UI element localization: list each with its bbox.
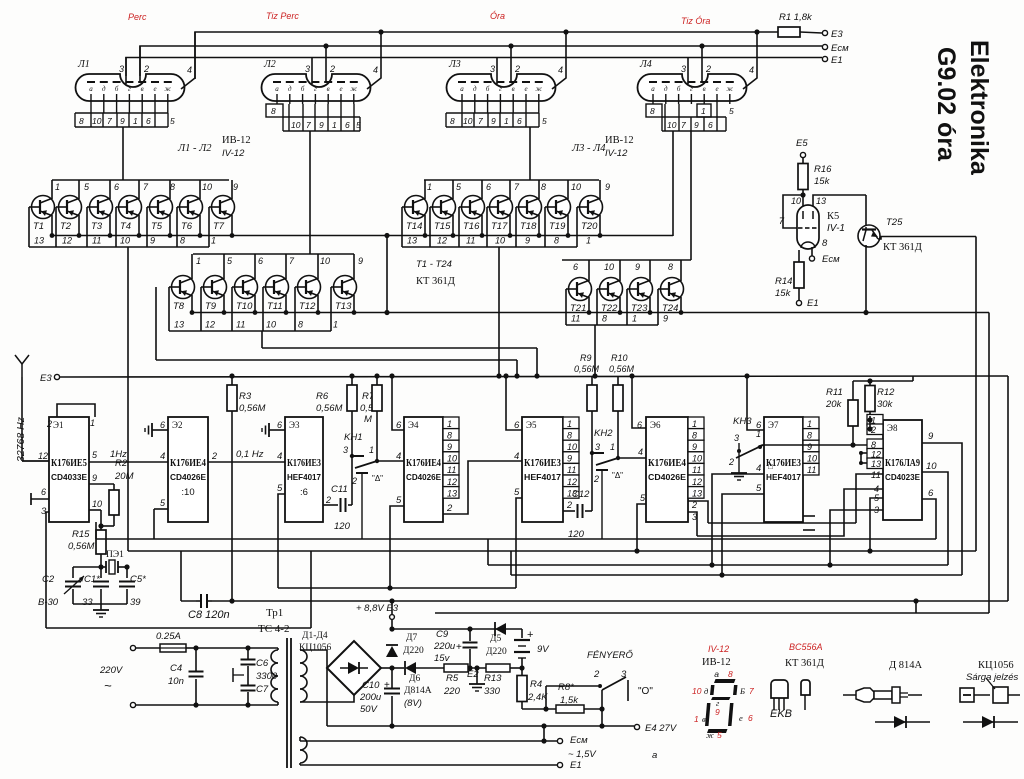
svg-text:E3: E3 — [40, 373, 52, 384]
wire T25 collector — [865, 245, 867, 313]
svg-text:8: 8 — [822, 238, 828, 249]
svg-text:1: 1 — [427, 182, 432, 192]
wire h7 — [511, 574, 962, 576]
svg-text:T25: T25 — [886, 217, 903, 228]
tube L4 pin1 box — [697, 104, 711, 117]
svg-text:г: г — [499, 85, 502, 93]
svg-text:10: 10 — [266, 320, 276, 330]
svg-text:ж: ж — [351, 85, 358, 93]
transistor T8 — [191, 254, 193, 279]
svg-text:R10: R10 — [611, 353, 628, 363]
tube L2 pin8 box — [266, 104, 283, 117]
svg-text:3: 3 — [595, 442, 600, 452]
svg-text:Есм: Есм — [831, 43, 849, 54]
svg-text:13: 13 — [174, 320, 184, 330]
wire E3 right edge down — [1007, 376, 1009, 601]
svg-text:2: 2 — [514, 64, 520, 74]
svg-text:5: 5 — [277, 483, 283, 494]
E6ic output pin boxes — [688, 417, 704, 429]
svg-text:Л1 - Л2: Л1 - Л2 — [177, 143, 212, 154]
diode D7 symbol — [386, 646, 398, 657]
svg-text:R2: R2 — [115, 458, 128, 469]
svg-text:6: 6 — [573, 262, 578, 272]
svg-text:8: 8 — [692, 430, 697, 440]
transistor package front view — [771, 680, 788, 698]
transistor T10 — [254, 254, 256, 279]
svg-text:CD4026E: CD4026E — [648, 472, 686, 482]
wire h4 — [96, 538, 936, 540]
wire T1 row base riser — [127, 247, 129, 551]
svg-text:6: 6 — [345, 120, 350, 130]
svg-text:E1: E1 — [807, 298, 819, 309]
svg-text:д: д — [664, 85, 668, 93]
svg-text:1: 1 — [211, 236, 216, 246]
svg-text:(8V): (8V) — [404, 698, 422, 709]
transistor T13 — [353, 254, 355, 279]
svg-text:8: 8 — [567, 430, 572, 440]
svg-text:IV-12: IV-12 — [605, 148, 628, 159]
transformer Tp1 primary — [271, 650, 278, 663]
svg-text:9: 9 — [715, 707, 720, 717]
svg-text:0,1 Hz: 0,1 Hz — [236, 449, 264, 460]
wire bridge out — [381, 667, 392, 669]
svg-text:5: 5 — [356, 120, 361, 130]
transistor row T21-T24 top rail — [562, 259, 691, 261]
svg-text:T18: T18 — [520, 221, 537, 232]
svg-text:Tiz Perc: Tiz Perc — [266, 11, 299, 21]
svg-text:1: 1 — [610, 442, 615, 452]
svg-text:2: 2 — [593, 474, 599, 484]
svg-text:B-30: B-30 — [38, 597, 59, 608]
diode D814A package — [843, 694, 856, 696]
E7ic output pin boxes — [803, 417, 819, 429]
wire to transformer — [248, 647, 278, 649]
svg-text:д: д — [102, 85, 106, 93]
svg-text:1: 1 — [632, 314, 637, 324]
svg-text:4: 4 — [749, 65, 754, 75]
wire T21 riser down — [594, 325, 596, 376]
svg-text:9: 9 — [663, 314, 668, 324]
svg-text:CD4033E: CD4033E — [51, 472, 87, 482]
diode KC1056 package — [960, 688, 974, 702]
svg-text:11: 11 — [871, 470, 881, 481]
svg-text:2: 2 — [325, 495, 331, 505]
svg-text:а: а — [89, 85, 93, 93]
svg-text:IV-12: IV-12 — [708, 644, 729, 654]
svg-text:КТ 361Д: КТ 361Д — [416, 276, 455, 287]
svg-text:a: a — [714, 669, 719, 679]
svg-text:ж: ж — [536, 85, 543, 93]
wire L2 comb down — [309, 131, 311, 254]
wire pins 12 13 join — [861, 452, 867, 454]
wire E3 mid bus — [60, 376, 1008, 377]
svg-text:220u: 220u — [433, 641, 456, 652]
svg-text:BC556A: BC556A — [789, 642, 823, 652]
tube Л4 IV-12 — [638, 74, 747, 101]
svg-text:T13: T13 — [335, 301, 352, 312]
ic Э3 — [285, 417, 323, 522]
svg-text:7: 7 — [681, 120, 686, 130]
svg-text:2: 2 — [705, 64, 711, 74]
wire K5 pin10 — [802, 195, 804, 206]
svg-text:50V: 50V — [360, 704, 379, 715]
svg-text:E1: E1 — [570, 760, 582, 771]
svg-text:1: 1 — [333, 320, 338, 330]
svg-text:К176ИЕ4: К176ИЕ4 — [170, 458, 207, 469]
svg-text:T16: T16 — [463, 221, 480, 232]
svg-text:C2: C2 — [42, 574, 55, 585]
svg-text:в: в — [512, 85, 515, 93]
svg-text:R11: R11 — [826, 387, 843, 398]
svg-text:+: + — [384, 680, 390, 691]
svg-text:T20: T20 — [581, 221, 598, 232]
E4ic output pin boxes — [443, 417, 459, 429]
wire h10 — [435, 612, 989, 614]
svg-text:4: 4 — [638, 447, 643, 457]
svg-text:1: 1 — [55, 182, 60, 192]
Л4 segment electrodes — [649, 81, 657, 83]
svg-text:R13: R13 — [484, 673, 502, 684]
svg-text:IV-12: IV-12 — [222, 148, 245, 159]
transistor T9 — [223, 254, 225, 279]
svg-text:C1*: C1* — [84, 574, 100, 585]
wire riser bus236 to bus313 — [386, 236, 388, 313]
transistor T25 — [865, 195, 867, 227]
svg-text:ИВ-12: ИВ-12 — [702, 657, 731, 668]
svg-text:К176ИЕ5: К176ИЕ5 — [51, 458, 87, 469]
svg-text:R3: R3 — [239, 391, 252, 402]
wire Л1 pin2 — [139, 46, 141, 82]
svg-text:8: 8 — [298, 320, 303, 330]
svg-text:КТ 361Д: КТ 361Д — [883, 242, 922, 253]
svg-text:11: 11 — [571, 314, 580, 324]
transistor T14 — [424, 180, 426, 199]
tube Л1 IV-12 — [76, 74, 185, 101]
svg-text:E3: E3 — [831, 29, 843, 40]
svg-text:г: г — [690, 85, 693, 93]
svg-text:1: 1 — [694, 714, 699, 724]
wire h11 — [46, 627, 311, 629]
svg-text:10: 10 — [807, 454, 817, 464]
svg-text:T5: T5 — [151, 221, 163, 232]
svg-text:T9: T9 — [205, 301, 217, 312]
wire bus E1 top — [126, 58, 822, 77]
svg-text:9: 9 — [567, 454, 572, 464]
wire Л4 pin4 grid — [743, 32, 757, 89]
wire Л4 pin3 — [687, 57, 689, 84]
ic Э6 — [646, 417, 688, 522]
svg-text:12: 12 — [437, 236, 447, 246]
fuse — [136, 647, 160, 649]
wire Л1 pin4 grid — [181, 32, 195, 89]
svg-text:KH1: KH1 — [344, 432, 362, 443]
svg-text:Л1: Л1 — [77, 59, 90, 70]
svg-text:T7: T7 — [213, 221, 225, 232]
wire T8 row bottom riser m1 — [261, 331, 263, 348]
svg-text:Elektronika: Elektronika — [965, 40, 993, 176]
svg-text:+: + — [456, 642, 462, 653]
svg-text:9: 9 — [150, 236, 155, 246]
svg-text:13: 13 — [447, 488, 457, 498]
svg-text:8: 8 — [180, 236, 185, 246]
svg-text:Тр1: Тр1 — [266, 607, 283, 619]
wire L1 grid-comb down — [122, 127, 124, 180]
svg-text:ТС 4-2: ТС 4-2 — [258, 623, 289, 635]
svg-text:0,56M: 0,56M — [316, 403, 342, 414]
svg-text:2: 2 — [593, 669, 600, 680]
svg-text:4: 4 — [187, 65, 192, 75]
svg-text:9: 9 — [605, 182, 610, 192]
wire bus313 right edge down — [988, 313, 990, 614]
svg-text:~ 1,5V: ~ 1,5V — [568, 749, 597, 760]
wire Л4 pin2 — [701, 46, 703, 82]
svg-text:а: а — [460, 85, 464, 93]
svg-text:5: 5 — [729, 106, 734, 116]
transistor T7 — [231, 180, 233, 199]
svg-text:д: д — [288, 85, 292, 93]
svg-text:б: б — [677, 85, 681, 93]
svg-text:1: 1 — [756, 429, 761, 439]
svg-text:R14: R14 — [775, 276, 792, 287]
svg-text:1: 1 — [90, 418, 95, 428]
wire L3 comb down — [529, 127, 531, 180]
svg-text::10: :10 — [181, 487, 194, 498]
svg-text:10: 10 — [120, 236, 130, 246]
wire T25 emitter — [878, 237, 976, 240]
svg-text:10: 10 — [926, 461, 937, 472]
wire secondary2 leads — [299, 737, 301, 741]
terminal 220V top — [130, 645, 135, 650]
svg-text:4: 4 — [558, 65, 563, 75]
svg-text:5: 5 — [542, 116, 547, 126]
svg-text:7: 7 — [107, 116, 112, 126]
svg-text:4: 4 — [160, 451, 165, 462]
wire 8.8 node — [392, 628, 522, 630]
svg-text:15v: 15v — [434, 653, 451, 664]
svg-text:CD4023E: CD4023E — [885, 472, 920, 482]
svg-text:КЦ1056: КЦ1056 — [978, 660, 1014, 671]
svg-text:5: 5 — [756, 483, 762, 494]
svg-text:9: 9 — [807, 442, 812, 452]
wire K5 cathode to Ecm — [811, 247, 813, 256]
svg-text:К176ИЕ4: К176ИЕ4 — [648, 458, 687, 469]
svg-text:Л2: Л2 — [263, 59, 276, 70]
svg-text:Э3: Э3 — [289, 420, 300, 430]
svg-text:8: 8 — [541, 182, 546, 192]
svg-text:2: 2 — [329, 64, 335, 74]
svg-text:1: 1 — [692, 419, 697, 429]
svg-text:10: 10 — [291, 120, 301, 130]
svg-text:9V: 9V — [537, 644, 550, 655]
transistor T18 — [538, 180, 540, 199]
svg-text:1: 1 — [504, 116, 509, 126]
svg-text:KH2: KH2 — [594, 428, 613, 439]
svg-text:220V: 220V — [99, 665, 124, 676]
svg-text:Sárga jelzés: Sárga jelzés — [966, 672, 1019, 683]
transistor T16 — [481, 180, 483, 199]
svg-text:4: 4 — [373, 65, 378, 75]
resistor R1 — [778, 27, 800, 37]
svg-text:5: 5 — [717, 730, 722, 740]
svg-text:E1: E1 — [831, 55, 843, 66]
transformer core — [286, 638, 288, 768]
terminal E4 27V — [634, 724, 639, 729]
svg-text:12: 12 — [692, 477, 702, 487]
svg-text:1: 1 — [586, 236, 591, 246]
terminal E3 top — [822, 30, 827, 35]
transistor T24 — [680, 260, 682, 281]
svg-text:0,56M: 0,56M — [68, 541, 94, 552]
svg-text:2: 2 — [143, 64, 149, 74]
svg-text:10: 10 — [92, 116, 102, 126]
svg-text:T11: T11 — [267, 301, 283, 312]
svg-text:12: 12 — [62, 236, 72, 246]
svg-text:в: в — [702, 714, 706, 724]
E7ic lower stubs — [803, 515, 815, 517]
terminal 220V bottom — [130, 702, 135, 707]
svg-text:a: a — [652, 750, 657, 761]
antenna — [15, 355, 29, 364]
svg-text:C5*: C5* — [130, 574, 146, 585]
svg-text:6: 6 — [41, 487, 46, 497]
svg-text:3: 3 — [490, 64, 495, 74]
svg-text:4: 4 — [277, 451, 282, 462]
capacitor C8 — [196, 594, 212, 608]
base staircase T14 — [402, 206, 405, 208]
svg-text:5: 5 — [170, 116, 175, 126]
svg-text:9: 9 — [694, 120, 699, 130]
tube Л2 IV-12 — [262, 74, 371, 101]
svg-text:Э5: Э5 — [526, 420, 537, 430]
svg-text:11: 11 — [692, 465, 701, 475]
wire collector bus upper rows — [52, 235, 673, 237]
svg-text:32768 Hz: 32768 Hz — [15, 416, 27, 462]
svg-text:1: 1 — [701, 106, 706, 116]
ground KH3 — [731, 472, 747, 474]
svg-text:ПЭ1: ПЭ1 — [106, 550, 124, 560]
svg-text:"Δ": "Δ" — [612, 471, 623, 480]
svg-text:R16: R16 — [814, 164, 832, 175]
K5 grid dashed line — [798, 227, 803, 229]
svg-text:3: 3 — [734, 433, 739, 443]
diode symbol KC1056 — [963, 721, 1018, 723]
ic Э4 — [404, 417, 443, 522]
transformer secondary 1 — [300, 650, 307, 663]
svg-text:9: 9 — [358, 256, 363, 266]
tube L4 pin8 box — [646, 104, 662, 117]
svg-text:10: 10 — [571, 182, 581, 192]
wire collector bus lower rows — [192, 312, 989, 314]
svg-text:T19: T19 — [549, 221, 566, 232]
svg-text:M: M — [364, 414, 372, 425]
svg-text:C7: C7 — [256, 684, 269, 695]
svg-text:12: 12 — [567, 477, 577, 487]
transistor T5 — [169, 180, 171, 199]
svg-text:R4: R4 — [530, 679, 542, 690]
svg-text:13: 13 — [692, 488, 702, 498]
Л3 segment electrodes — [458, 81, 466, 83]
transistor T11 — [285, 254, 287, 279]
svg-text:9: 9 — [692, 442, 697, 452]
resistor R16 — [802, 158, 804, 164]
svg-text:е: е — [153, 85, 156, 93]
transistor T20 — [599, 180, 601, 199]
svg-text:2: 2 — [566, 500, 572, 510]
svg-text:10: 10 — [320, 256, 330, 266]
svg-text:11: 11 — [466, 236, 475, 246]
wire KH2 to E6ic pin4 — [618, 457, 646, 459]
ic Э5 — [522, 417, 563, 522]
wire R11 R12 tops — [853, 380, 913, 382]
wire h9 E3 8.8V line — [181, 600, 1008, 602]
transistor row T8-T13 top rail — [193, 253, 354, 255]
tube K5 IV-1 — [797, 205, 819, 249]
K5 internal posts — [802, 211, 804, 219]
wire KH3 to R11 E8 pin8 — [758, 445, 762, 447]
svg-text:"O": "O" — [638, 686, 653, 697]
transistor T22 — [619, 260, 621, 281]
svg-text:Есм: Есм — [822, 254, 840, 265]
svg-text:C12: C12 — [572, 489, 590, 500]
tube L2 pin ladder — [283, 116, 360, 118]
Л2 segment electrodes — [273, 81, 281, 83]
svg-text:KH3: KH3 — [733, 416, 752, 427]
Л1 segment electrodes — [87, 81, 95, 83]
svg-text:5: 5 — [514, 487, 520, 498]
svg-text:11: 11 — [447, 465, 456, 475]
svg-text:5: 5 — [396, 495, 402, 506]
svg-text:T6: T6 — [181, 221, 193, 232]
terminal Ecm top — [822, 44, 827, 49]
svg-text:4: 4 — [756, 463, 761, 474]
transistor T6 — [199, 180, 201, 199]
svg-text:6: 6 — [517, 116, 522, 126]
svg-text:Э8: Э8 — [887, 423, 898, 433]
svg-text:12: 12 — [447, 477, 457, 487]
svg-text:1: 1 — [807, 419, 812, 429]
svg-text:T15: T15 — [434, 221, 451, 232]
svg-text:6: 6 — [258, 256, 263, 266]
wire Л3 pin4 grid — [552, 32, 566, 89]
transistor T15 — [452, 180, 454, 199]
wire K5 pin13 to T25 base — [813, 195, 866, 206]
svg-text:7: 7 — [749, 686, 754, 696]
svg-text:10: 10 — [667, 120, 677, 130]
transistor row T1-T7 top rail — [52, 179, 229, 181]
svg-text:К176ИЕ3: К176ИЕ3 — [287, 458, 321, 469]
base staircase T1 — [29, 206, 32, 208]
svg-text:6: 6 — [748, 713, 753, 723]
svg-text:11: 11 — [92, 236, 101, 246]
svg-text:е: е — [524, 85, 527, 93]
wire T8 base riser — [155, 287, 157, 360]
svg-text:1: 1 — [447, 419, 452, 429]
svg-text:R1 1,8k: R1 1,8k — [779, 12, 813, 23]
wire Л1 pin3 — [125, 57, 127, 84]
svg-text:R8*: R8* — [558, 682, 574, 693]
svg-text:R15: R15 — [72, 529, 90, 540]
wire K5 pin7 to R16 node — [783, 195, 802, 228]
wire KH1 to E4ic pin4 — [377, 460, 404, 462]
svg-text:Л3 - Л4: Л3 - Л4 — [571, 143, 606, 154]
svg-text:15k: 15k — [775, 288, 792, 299]
wire h8 — [278, 587, 516, 589]
svg-text:11: 11 — [807, 465, 816, 475]
svg-text:1: 1 — [196, 256, 201, 266]
svg-text:T17: T17 — [491, 221, 508, 232]
svg-text:Д 814A: Д 814A — [889, 660, 923, 671]
transistor T17 — [509, 180, 511, 199]
